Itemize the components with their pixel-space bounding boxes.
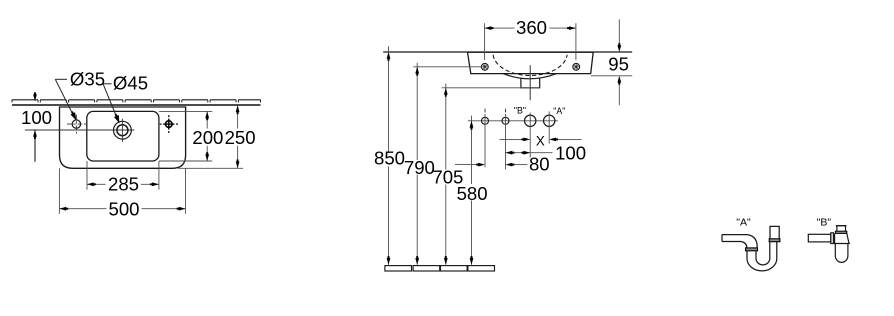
svg-text:"A": "A" — [553, 106, 565, 116]
supply hole 1 — [482, 109, 489, 168]
fixing hole right — [573, 63, 580, 70]
inner bowl outline (top view) — [87, 111, 159, 161]
svg-text:Ø45: Ø45 — [113, 73, 148, 94]
svg-text:790: 790 — [404, 157, 435, 178]
dimension 580 — [457, 116, 488, 265]
svg-text:100: 100 — [21, 107, 52, 128]
floor section tiles — [385, 266, 495, 271]
tap hole circle (Ø35) — [67, 115, 86, 134]
dimension 850 — [374, 46, 405, 264]
vertical centre line (front view) — [529, 65, 531, 100]
trap B (bottle trap) — [808, 226, 850, 263]
connection circle A — [544, 106, 566, 144]
label Ø35 and leader — [55, 69, 105, 121]
connection circle B — [514, 105, 536, 157]
wall top line (front view) — [383, 51, 632, 53]
svg-text:285: 285 — [108, 173, 139, 194]
drain centre line — [25, 129, 134, 131]
dimension 360 — [485, 17, 576, 60]
svg-text:95: 95 — [608, 53, 629, 74]
svg-text:200: 200 — [192, 127, 223, 148]
extension line (bowl bottom to 200 dim) — [159, 160, 212, 162]
dimension 200 — [192, 111, 223, 161]
tap hole marking (right) — [160, 115, 178, 133]
svg-text:850: 850 — [374, 148, 405, 169]
svg-text:"A": "A" — [736, 216, 751, 228]
drain outlet box — [521, 78, 540, 88]
reference line 790 — [413, 66, 481, 68]
dimension 80 — [455, 153, 550, 174]
wall section line (top view) — [12, 100, 261, 105]
svg-text:"B": "B" — [817, 216, 832, 228]
dimension 100 (top view) — [21, 92, 52, 161]
dimension 100 (front view) — [506, 143, 587, 164]
dimension X — [500, 133, 582, 148]
dimension 95 — [591, 19, 632, 105]
svg-text:Ø35: Ø35 — [70, 69, 105, 90]
washbasin outer outline (top view) — [60, 107, 186, 168]
supply hole 2 — [502, 109, 509, 170]
dimension 790 — [404, 63, 435, 265]
label "A" (trap A) — [736, 216, 751, 228]
washbasin body (front view) — [468, 52, 594, 73]
svg-text:250: 250 — [225, 127, 256, 148]
svg-text:80: 80 — [529, 153, 550, 174]
trap A (P-trap) — [722, 226, 780, 271]
drain hole circles (Ø45) — [114, 119, 132, 142]
reference line 705 — [442, 87, 540, 89]
svg-text:360: 360 — [516, 17, 547, 38]
fixing hole left — [481, 63, 488, 70]
extension line (bowl top to 200 dim) — [159, 110, 212, 112]
dimension 250 — [225, 105, 256, 168]
svg-text:X: X — [536, 133, 545, 148]
label "B" (trap B) — [817, 216, 832, 228]
extension line (basin bottom to 250 dim) — [178, 167, 243, 169]
svg-text:500: 500 — [108, 198, 139, 219]
label Ø45 and leader — [103, 73, 148, 124]
svg-text:580: 580 — [457, 183, 488, 204]
supply centre line — [468, 120, 558, 122]
svg-text:100: 100 — [555, 143, 586, 164]
dimension 705 — [432, 84, 463, 265]
svg-text:"B": "B" — [514, 105, 526, 115]
dimension 285 — [87, 161, 159, 194]
dimension 500 — [59, 168, 185, 219]
hidden bowl contour (dashed) — [493, 55, 567, 76]
bowl underside curve — [503, 74, 557, 79]
